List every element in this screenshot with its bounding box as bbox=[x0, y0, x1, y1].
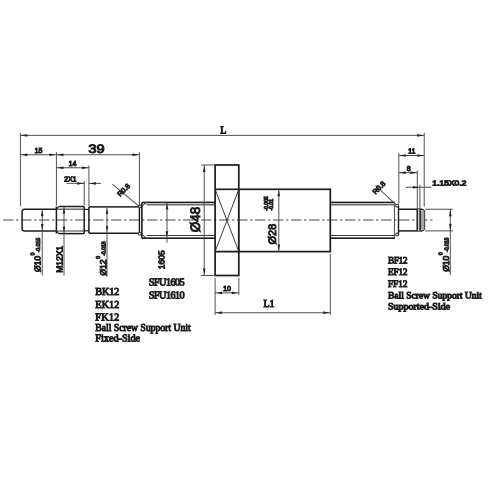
leader R0.8 left bbox=[113, 184, 140, 206]
svg-text:2X1: 2X1 bbox=[64, 177, 77, 184]
svg-text:11: 11 bbox=[408, 149, 415, 156]
svg-text:39: 39 bbox=[88, 142, 105, 156]
svg-text:8: 8 bbox=[407, 166, 411, 173]
svg-text:R0.8: R0.8 bbox=[117, 183, 132, 198]
thread minor diameter lines bbox=[58, 209, 85, 231]
dimension 2X1 bbox=[67, 181, 102, 205]
svg-text:Fixed-Side: Fixed-Side bbox=[95, 334, 140, 345]
svg-text:FK12: FK12 bbox=[95, 312, 119, 323]
label M12X1 with dimension line bbox=[63, 207, 65, 276]
svg-text:14: 14 bbox=[69, 161, 77, 168]
dimension Ø10 right bbox=[425, 209, 453, 275]
dimension 15 bbox=[20, 152, 139, 205]
svg-text:Ball Screw Support Unit: Ball Screw Support Unit bbox=[388, 291, 482, 301]
svg-text:15: 15 bbox=[35, 148, 43, 155]
dimension 1605 bbox=[166, 202, 168, 242]
svg-text:L1: L1 bbox=[263, 299, 274, 310]
svg-text:1605: 1605 bbox=[156, 250, 166, 269]
dimension 11 bbox=[399, 153, 424, 204]
svg-text:EK12: EK12 bbox=[95, 300, 119, 311]
leader R0.8 right bbox=[376, 186, 397, 205]
svg-text:Ø100-0.015: Ø100-0.015 bbox=[438, 237, 451, 271]
svg-text:10: 10 bbox=[223, 286, 231, 293]
svg-text:Ø120-0.018: Ø120-0.018 bbox=[96, 241, 108, 275]
centerline bbox=[3, 219, 434, 221]
dimension L bbox=[20, 133, 424, 207]
svg-text:EF12: EF12 bbox=[388, 267, 408, 277]
dimension 10 (flange width) bbox=[215, 278, 239, 315]
svg-text:SFU1610: SFU1610 bbox=[149, 290, 185, 301]
svg-text:Ø100-0.015: Ø100-0.015 bbox=[30, 238, 42, 272]
nut flange bbox=[215, 165, 239, 276]
shaft left end journal Ø10 bbox=[22, 209, 56, 231]
ball screw shaft left segment bbox=[142, 202, 215, 238]
label Ø12 with dimension line bbox=[106, 207, 108, 277]
svg-text:M12X1: M12X1 bbox=[55, 246, 65, 273]
nut body Ø28 bbox=[239, 189, 330, 251]
journal Ø12 bbox=[89, 207, 138, 233]
svg-text:FF12: FF12 bbox=[388, 279, 408, 289]
dimension Ø28 bbox=[278, 189, 280, 251]
dimension 14 bbox=[56, 165, 89, 206]
end journal Ø10 right bbox=[399, 209, 425, 231]
fillet R0.8 right bottom bbox=[396, 233, 399, 236]
retaining-ring groove 1.15X0.2 bbox=[417, 209, 425, 231]
svg-text:R0.8: R0.8 bbox=[372, 181, 387, 196]
dimension Ø48 bbox=[201, 165, 214, 276]
fillet R0.8 right top bbox=[396, 204, 399, 207]
flange cross diagonals bbox=[215, 189, 239, 251]
svg-text:BK12: BK12 bbox=[95, 287, 119, 298]
step face right bbox=[398, 206, 400, 235]
dimension 8 bbox=[399, 170, 418, 208]
ball screw shaft right segment bbox=[330, 202, 395, 238]
svg-text:BF12: BF12 bbox=[388, 256, 408, 266]
label Ø10 left with dimension line bbox=[41, 209, 43, 275]
note SFU1605 SFU1610 bbox=[149, 277, 185, 301]
fillet R0.8 left top bbox=[139, 205, 142, 208]
thread section M12X1 bbox=[56, 207, 84, 234]
thread start chamfers bbox=[142, 202, 147, 238]
step face left bbox=[138, 207, 140, 233]
note fixed side block bbox=[95, 287, 191, 345]
thread end line right bbox=[393, 203, 395, 238]
svg-text:L: L bbox=[220, 126, 226, 137]
svg-text:1.15X0.2: 1.15X0.2 bbox=[432, 181, 466, 188]
thread root lines left bbox=[147, 205, 216, 236]
svg-text:Ø48: Ø48 bbox=[188, 207, 203, 233]
dimension L1 bbox=[215, 254, 330, 315]
leader 1.15X0.2 bbox=[406, 185, 432, 209]
dimension 39 bbox=[138, 152, 140, 205]
svg-text:SFU1605: SFU1605 bbox=[149, 277, 185, 288]
note supported side block bbox=[388, 256, 482, 312]
fillet R0.8 left bottom bbox=[139, 232, 142, 235]
undercut groove 2X1 bbox=[84, 207, 89, 234]
svg-text:Ball Screw Support Unit: Ball Screw Support Unit bbox=[95, 323, 191, 334]
svg-text:Supported-Side: Supported-Side bbox=[388, 302, 450, 312]
thread root lines right bbox=[330, 205, 394, 236]
